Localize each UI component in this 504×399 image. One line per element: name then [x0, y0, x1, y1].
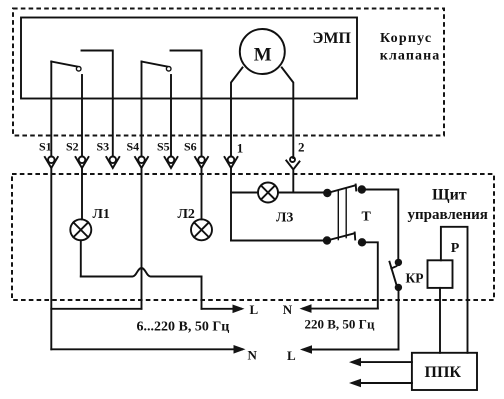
- motor M: [240, 29, 285, 74]
- svg-text:6...220 В, 50 Гц: 6...220 В, 50 Гц: [137, 320, 230, 335]
- wire tie S1 to S4: [51, 308, 141, 310]
- svg-text:Щит: Щит: [432, 186, 467, 203]
- lamp Л3: [258, 183, 278, 203]
- left N output arrow: [51, 345, 245, 354]
- wire relay P top bracket to PPK: [441, 227, 468, 353]
- wire T top output to KR: [362, 190, 399, 263]
- svg-text:220 В, 50 Гц: 220 В, 50 Гц: [305, 317, 375, 332]
- svg-text:N: N: [283, 302, 293, 317]
- svg-text:2: 2: [298, 140, 305, 155]
- svg-text:N: N: [248, 347, 258, 362]
- wire lamp commons with hop over S4 wire: [81, 268, 202, 277]
- svg-text:Т: Т: [362, 210, 372, 225]
- limit switch SQ1 lever (common S1): [51, 62, 81, 72]
- wire motor lead to terminal 2: [282, 68, 294, 159]
- terminal S1: [45, 157, 58, 169]
- wire S1 down to N output: [50, 168, 52, 349]
- wire S5 (NC contact of SQ2): [170, 75, 172, 156]
- svg-text:М: М: [254, 44, 272, 65]
- button КР: [390, 259, 403, 291]
- svg-text:управления: управления: [408, 207, 488, 223]
- wire T bottom output down to right N output: [362, 242, 378, 308]
- EMP actuator box: [21, 18, 357, 99]
- switch T bottom contact: [323, 233, 366, 247]
- wire S2 (NC contact of SQ1): [81, 75, 83, 156]
- svg-text:L: L: [287, 348, 296, 363]
- relay Р: [428, 260, 453, 288]
- wire S1: [50, 62, 52, 157]
- wire S6 bracket (NO contact of SQ2): [171, 51, 202, 157]
- wire S3 bracket (NO contact of SQ1): [82, 51, 113, 157]
- svg-text:Л2: Л2: [178, 207, 195, 222]
- svg-text:КР: КР: [406, 271, 424, 286]
- switch T top contact: [323, 185, 366, 198]
- lamp Л2: [191, 219, 212, 240]
- svg-text:S5: S5: [157, 140, 170, 154]
- wire S2 down to lamp L1: [81, 168, 83, 219]
- svg-text:Корпус: Корпус: [380, 31, 432, 46]
- PPK output arrow 1: [349, 358, 412, 367]
- svg-text:S2: S2: [66, 140, 79, 154]
- limit switch SQ2 lever (common S4): [142, 62, 172, 72]
- wire S4 down to tie: [141, 168, 143, 309]
- wire S6 down to lamp L2: [201, 168, 203, 219]
- svg-text:S4: S4: [127, 140, 140, 154]
- terminal 1: [225, 157, 238, 169]
- terminal S2: [76, 157, 89, 169]
- wire lamp L3 to switch T top contact: [278, 192, 327, 194]
- svg-text:ППК: ППК: [425, 364, 462, 381]
- svg-text:S1: S1: [39, 140, 52, 154]
- svg-text:Р: Р: [451, 241, 460, 256]
- wire KR down to right L output: [398, 287, 400, 349]
- wire lamp common down to L output: [201, 277, 203, 309]
- fire panel ППК box: [412, 353, 477, 390]
- switch T mechanical link: [338, 189, 346, 241]
- terminal S4: [135, 157, 148, 169]
- PPK output arrow 2: [349, 379, 412, 388]
- svg-text:S6: S6: [184, 140, 197, 154]
- terminal 2: [286, 157, 299, 170]
- right L output arrow: [300, 345, 399, 354]
- terminal S6: [195, 157, 208, 169]
- svg-text:Л1: Л1: [93, 207, 110, 222]
- label Корпус клапана: [380, 31, 441, 64]
- wire bottom rail: [231, 240, 327, 242]
- left L output arrow: [202, 305, 245, 314]
- svg-text:ЭМП: ЭМП: [313, 30, 352, 47]
- control panel dashed enclosure: [12, 174, 494, 300]
- svg-text:Л3: Л3: [276, 210, 293, 225]
- svg-text:L: L: [250, 302, 259, 317]
- wire lamp L1 bottom: [80, 240, 82, 276]
- wire terminal 1 down: [230, 168, 232, 241]
- wire S4: [141, 62, 143, 157]
- lamp Л1: [70, 219, 91, 240]
- terminal S3: [106, 157, 119, 169]
- svg-text:клапана: клапана: [380, 49, 441, 64]
- valve body dashed enclosure: [13, 9, 444, 136]
- svg-text:S3: S3: [97, 140, 110, 154]
- terminal S5: [165, 157, 178, 169]
- svg-text:1: 1: [237, 141, 244, 156]
- wire terminal 2 down to rail: [292, 170, 294, 193]
- wire relay P bottom to PPK: [439, 288, 441, 353]
- wire top rail to lamp L3: [231, 192, 258, 194]
- right N output arrow: [300, 304, 378, 313]
- wire motor lead to terminal 1: [231, 68, 243, 157]
- label Щит управления: [408, 186, 488, 223]
